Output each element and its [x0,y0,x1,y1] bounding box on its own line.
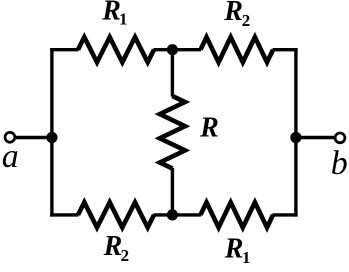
node junction right [290,132,301,143]
svg-text:1: 1 [119,10,128,29]
wire top rail left lead [50,48,78,51]
node junction bottom-middle [167,209,178,220]
resistor R2 zigzag (bottom-left) [78,202,154,227]
resistor R2 zigzag (top-right) [201,37,274,62]
node junction top-middle [167,44,178,55]
svg-text:2: 2 [121,246,130,265]
resistor R zigzag (middle) [160,96,185,169]
wire right column [294,48,297,217]
svg-text:1: 1 [242,248,251,267]
svg-text:R: R [103,231,123,262]
resistor R1 zigzag (top-left) [78,37,154,62]
svg-text:b: b [331,145,348,182]
svg-text:2: 2 [242,11,251,30]
wire top rail middle leads [154,48,202,51]
svg-text:a: a [2,138,19,175]
wire top rail right lead [273,48,298,51]
terminal b circle [335,133,345,143]
wire bottom rail right lead [273,213,298,216]
wire left column [50,48,53,217]
node junction left [46,132,57,143]
svg-text:R: R [199,112,219,143]
svg-text:R: R [223,0,243,27]
svg-text:R: R [224,234,244,265]
resistor R1 zigzag (bottom-right) [201,202,274,227]
wire middle branch bottom lead [171,168,174,215]
wire bottom rail left lead [50,213,78,216]
terminal a circle [5,132,15,142]
wire middle branch top lead [171,50,174,97]
wire bottom rail middle leads [154,213,202,216]
wire to terminal a [15,136,52,139]
wire to terminal b [296,136,335,139]
